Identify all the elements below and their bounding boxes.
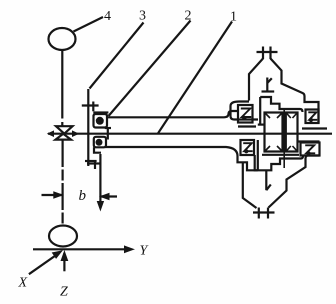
svg-text:3: 3	[139, 9, 146, 24]
svg-text:2: 2	[185, 9, 192, 24]
svg-text:Y: Y	[140, 244, 150, 259]
svg-text:Z: Z	[60, 285, 68, 300]
svg-text:4: 4	[104, 9, 111, 24]
svg-text:X: X	[18, 276, 28, 291]
svg-text:b: b	[79, 188, 87, 204]
svg-text:1: 1	[230, 10, 237, 25]
